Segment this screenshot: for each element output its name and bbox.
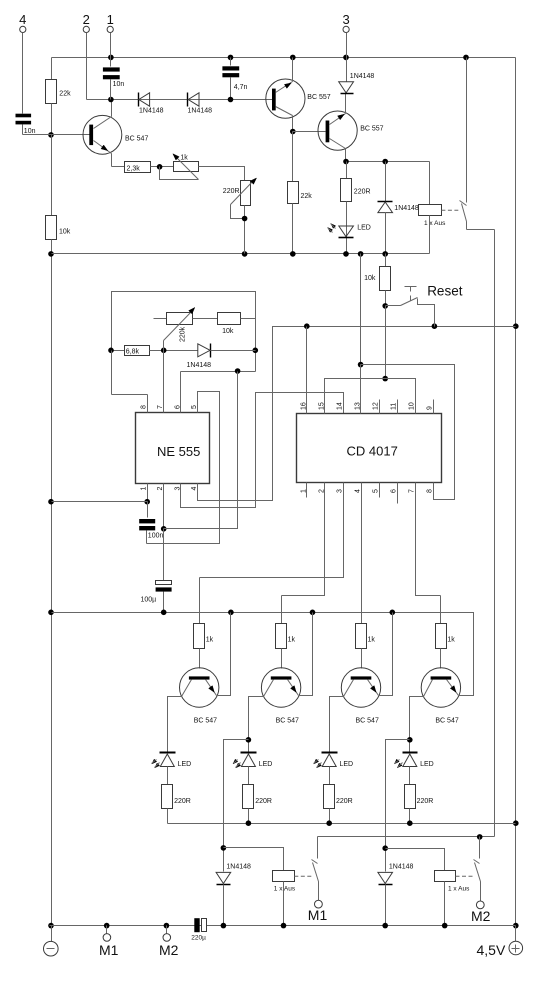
svg-text:CD 4017: CD 4017 (347, 444, 398, 459)
svg-text:10k: 10k (59, 229, 71, 236)
svg-text:1N4148: 1N4148 (389, 863, 414, 870)
svg-text:4: 4 (191, 487, 198, 491)
svg-text:BC 547: BC 547 (356, 717, 379, 724)
svg-text:2: 2 (83, 12, 90, 27)
svg-text:5: 5 (191, 405, 198, 409)
svg-text:Reset: Reset (427, 284, 463, 299)
svg-text:BC 547: BC 547 (194, 717, 217, 724)
svg-text:1 x Aus: 1 x Aus (448, 886, 470, 893)
svg-text:1k: 1k (206, 637, 214, 644)
svg-text:M2: M2 (159, 942, 179, 958)
svg-text:2,3k: 2,3k (127, 166, 141, 173)
svg-text:11: 11 (391, 403, 398, 410)
svg-text:1k: 1k (180, 154, 188, 161)
svg-text:100µ: 100µ (141, 597, 157, 604)
svg-text:1N4148: 1N4148 (187, 362, 212, 369)
svg-text:1: 1 (107, 12, 114, 27)
svg-text:4: 4 (19, 12, 26, 27)
svg-text:1: 1 (141, 487, 148, 491)
svg-text:6,8k: 6,8k (126, 349, 140, 356)
svg-text:10k: 10k (364, 275, 376, 282)
svg-text:220µ: 220µ (191, 934, 206, 941)
svg-text:1k: 1k (288, 637, 296, 644)
svg-text:BC 547: BC 547 (435, 717, 458, 724)
svg-text:22k: 22k (301, 193, 313, 200)
svg-text:9: 9 (427, 406, 434, 410)
svg-text:1 x Aus: 1 x Aus (274, 886, 296, 893)
svg-text:1N4148: 1N4148 (188, 108, 213, 115)
svg-text:10k: 10k (222, 328, 234, 335)
svg-text:3: 3 (342, 12, 349, 27)
svg-text:BC 557: BC 557 (360, 126, 383, 133)
svg-text:1N4148: 1N4148 (350, 73, 375, 80)
svg-text:M1: M1 (99, 942, 119, 958)
svg-text:220R: 220R (255, 798, 272, 805)
svg-text:1N4148: 1N4148 (226, 863, 251, 870)
svg-text:4,7n: 4,7n (234, 84, 248, 91)
svg-text:220R: 220R (354, 188, 371, 195)
svg-text:LED: LED (259, 761, 273, 768)
svg-text:6: 6 (174, 405, 181, 409)
svg-text:LED: LED (340, 761, 354, 768)
svg-text:BC 547: BC 547 (125, 136, 148, 143)
svg-text:100n: 100n (148, 533, 164, 540)
svg-text:220R: 220R (336, 798, 353, 805)
svg-text:220k: 220k (180, 326, 187, 342)
svg-text:BC 557: BC 557 (307, 94, 330, 101)
svg-text:3: 3 (337, 489, 344, 493)
svg-text:M1: M1 (308, 907, 328, 923)
svg-text:4,5V: 4,5V (477, 942, 506, 958)
svg-text:BC 547: BC 547 (276, 717, 299, 724)
svg-text:1N4148: 1N4148 (394, 205, 419, 212)
svg-text:7: 7 (409, 489, 416, 493)
svg-text:NE 555: NE 555 (157, 444, 200, 459)
svg-text:4: 4 (355, 489, 362, 493)
svg-text:8: 8 (427, 489, 434, 493)
svg-text:22k: 22k (59, 91, 71, 98)
svg-text:10n: 10n (24, 128, 36, 135)
svg-text:1N4148: 1N4148 (139, 108, 164, 115)
svg-text:1 x Aus: 1 x Aus (424, 220, 446, 227)
svg-text:LED: LED (357, 224, 371, 231)
svg-text:220R: 220R (174, 798, 191, 805)
svg-text:10: 10 (409, 402, 416, 410)
svg-text:5: 5 (373, 489, 380, 493)
svg-text:12: 12 (373, 402, 380, 410)
svg-text:M2: M2 (471, 908, 491, 924)
svg-text:8: 8 (141, 405, 148, 409)
svg-text:10n: 10n (113, 81, 125, 88)
svg-text:220R: 220R (223, 188, 240, 195)
svg-text:14: 14 (337, 402, 344, 410)
svg-text:7: 7 (157, 405, 164, 409)
svg-text:6: 6 (391, 489, 398, 493)
svg-text:1k: 1k (368, 637, 376, 644)
svg-text:LED: LED (178, 761, 192, 768)
svg-text:220R: 220R (417, 798, 434, 805)
svg-text:1k: 1k (447, 637, 455, 644)
svg-text:LED: LED (420, 761, 434, 768)
